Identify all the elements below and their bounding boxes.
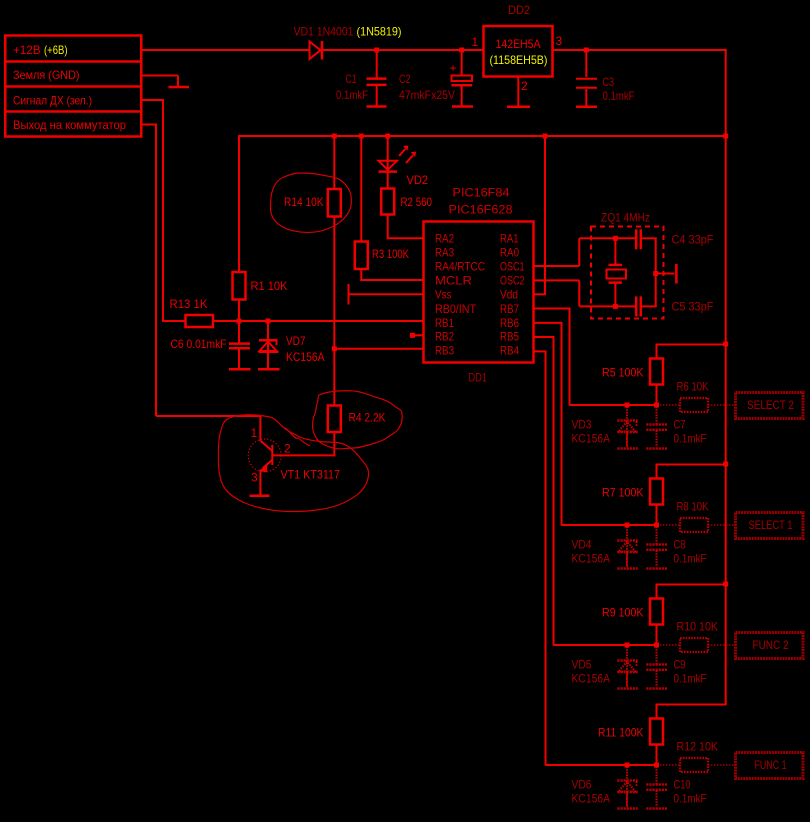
svg-text:VD7: VD7 [286,334,306,348]
svg-text:DD2: DD2 [508,3,530,17]
svg-text:KC156A: KC156A [572,552,611,566]
svg-text:RB7: RB7 [500,302,519,316]
svg-text:1: 1 [251,426,258,440]
svg-text:FUNC 1: FUNC 1 [755,758,787,772]
svg-text:C6 0.01mkF: C6 0.01mkF [171,337,227,351]
svg-text:R3 100K: R3 100K [372,247,409,261]
svg-text:C2: C2 [399,72,411,86]
svg-text:VD6: VD6 [572,778,592,792]
svg-text:RB3: RB3 [435,343,454,357]
svg-text:RA4/RTCC: RA4/RTCC [435,259,485,273]
svg-text:47mkFx25V: 47mkFx25V [399,88,455,102]
svg-text:R13 1K: R13 1K [170,297,208,311]
svg-text:R10 10K: R10 10K [677,620,719,634]
svg-text:R7 100K: R7 100K [602,485,644,499]
svg-text:VD5: VD5 [572,658,592,672]
svg-text:0.1mkF: 0.1mkF [674,672,707,686]
svg-text:R6 10K: R6 10K [677,380,709,394]
svg-text:3: 3 [556,34,563,48]
svg-text:PIC16F628: PIC16F628 [449,203,513,217]
svg-text:SELECT 2: SELECT 2 [747,398,794,412]
svg-text:DD1: DD1 [469,371,488,385]
svg-text:142EH5A: 142EH5A [496,37,541,51]
svg-text:1: 1 [472,35,479,49]
svg-text:Выход на коммутатор: Выход на коммутатор [13,118,126,132]
svg-text:(+6В): (+6В) [44,43,68,57]
svg-text:RB5: RB5 [500,330,519,344]
svg-text:SELECT 1: SELECT 1 [749,518,793,532]
svg-text:Сигнал ДХ (зел.): Сигнал ДХ (зел.) [13,93,92,107]
svg-text:C9: C9 [674,658,686,672]
svg-text:VD1 1N4001: VD1 1N4001 [294,24,354,38]
svg-text:2: 2 [284,441,291,455]
svg-text:0.1mkF: 0.1mkF [674,432,707,446]
svg-text:R2 560: R2 560 [401,195,433,209]
svg-text:RB6: RB6 [500,316,519,330]
svg-text:OSC2: OSC2 [500,273,525,287]
svg-text:Vss: Vss [435,288,452,302]
svg-text:R14 10K: R14 10K [284,195,324,209]
svg-text:C7: C7 [674,418,686,432]
svg-text:RB0/INT: RB0/INT [435,302,477,316]
svg-text:VD4: VD4 [572,538,592,552]
svg-text:C4 33pF: C4 33pF [672,232,714,246]
svg-text:VD3: VD3 [572,418,592,432]
svg-text:PIC16F84: PIC16F84 [453,186,510,200]
svg-text:+12В: +12В [13,43,41,57]
svg-text:(1158EH5B): (1158EH5B) [490,53,548,67]
svg-text:KC156A: KC156A [572,792,611,806]
svg-text:KC156A: KC156A [572,432,611,446]
svg-text:2: 2 [521,79,528,93]
svg-text:R11 100K: R11 100K [598,725,644,739]
svg-text:R9 100K: R9 100K [602,605,644,619]
svg-text:R4 2.2K: R4 2.2K [349,411,386,425]
svg-text:RA1: RA1 [500,231,519,245]
svg-text:RA0: RA0 [500,245,519,259]
svg-text:RA3: RA3 [435,245,454,259]
svg-text:C5 33pF: C5 33pF [672,300,714,314]
svg-text:0.1mkF: 0.1mkF [674,552,707,566]
svg-text:R8 10K: R8 10K [677,500,709,514]
svg-text:R1 10K: R1 10K [251,279,288,293]
svg-text:R5 100K: R5 100K [602,365,644,379]
svg-text:VT1 KT3117: VT1 KT3117 [281,467,341,481]
svg-text:KC156A: KC156A [572,672,611,686]
svg-text:RA2: RA2 [435,231,454,245]
svg-text:0.1mkF: 0.1mkF [603,89,635,103]
svg-text:0.1mkF: 0.1mkF [674,792,707,806]
svg-text:R12 10K: R12 10K [677,740,719,754]
svg-text:C8: C8 [674,538,686,552]
svg-text:C1: C1 [346,72,357,86]
svg-text:FUNC 2: FUNC 2 [753,638,789,652]
svg-text:(1N5819): (1N5819) [357,24,402,38]
svg-text:KC156A: KC156A [286,350,325,364]
svg-text:C3: C3 [603,75,615,89]
svg-text:ZQ1 4MHz: ZQ1 4MHz [601,211,650,225]
svg-text:Vdd: Vdd [500,288,518,302]
svg-text:RB1: RB1 [435,316,454,330]
svg-text:+: + [450,61,457,75]
svg-text:RB4: RB4 [500,343,519,357]
svg-text:RB2: RB2 [435,330,454,344]
svg-text:VD2: VD2 [407,173,429,187]
svg-text:MCLR: MCLR [435,273,472,287]
svg-text:OSC1: OSC1 [500,259,525,273]
svg-text:0.1mkF: 0.1mkF [336,88,368,102]
svg-text:Земля (GND): Земля (GND) [13,68,80,82]
svg-text:3: 3 [251,471,258,485]
svg-text:C10: C10 [674,778,691,792]
